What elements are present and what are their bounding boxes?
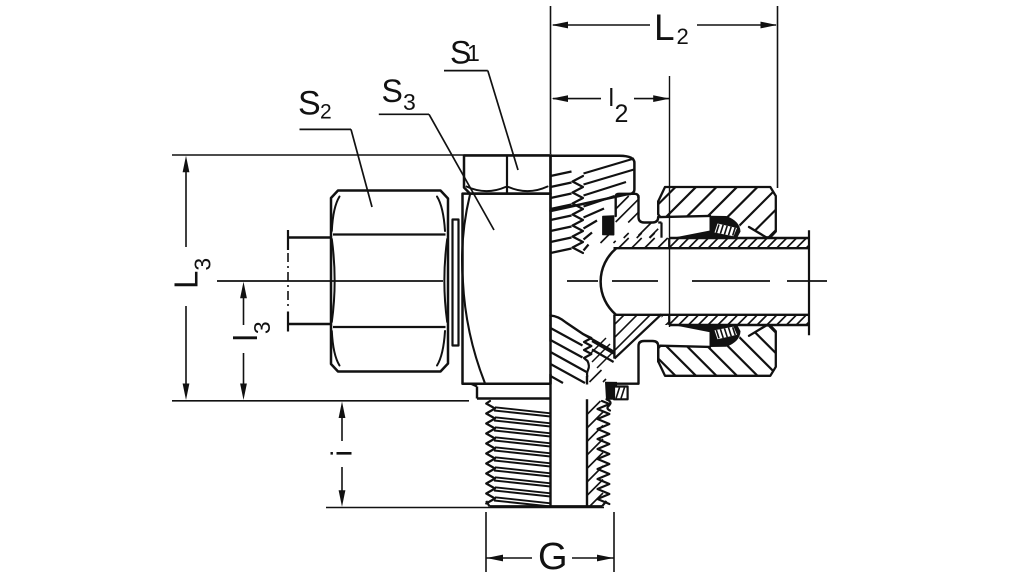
extension line L2 left axis top	[550, 6, 552, 154]
tube right end tick	[808, 230, 810, 335]
nut S2 chamfer arc mid-right	[444, 239, 447, 322]
swivel flange top hatch	[615, 195, 617, 197]
stud thread section zigzag	[598, 401, 610, 504]
bore channel bottom edge	[614, 314, 810, 316]
leader S1	[444, 70, 488, 72]
extension line i bottom	[326, 507, 604, 509]
locknut S1 chamfer arc right facet	[509, 187, 548, 192]
leader S2	[300, 128, 352, 130]
stud bottom edge	[490, 505, 603, 507]
tube end tick bottom	[287, 312, 289, 332]
stud bore wall section	[586, 376, 588, 385]
centerline horizontal axis	[217, 280, 443, 282]
stud thread external flank lines	[495, 407, 551, 413]
dimension L2 arrow left	[552, 22, 569, 29]
stud thread external zigzag	[486, 401, 495, 504]
nut S2 chamfer arc bottom-right	[437, 331, 445, 366]
tube right wall top hatch	[668, 237, 670, 239]
stud thread section hatch upper	[587, 369, 589, 371]
union nut right top outline	[658, 187, 776, 238]
dimension l3 arrow up	[240, 282, 247, 299]
tube end tick top	[287, 230, 289, 250]
tube right outline top	[669, 237, 809, 239]
tube break dash-dot	[287, 253, 289, 309]
nut S2 chamfer arc top-right	[437, 197, 445, 232]
body lower cross hatch	[592, 344, 610, 362]
svg-text:1: 1	[467, 40, 480, 66]
body S3 outline	[463, 194, 551, 384]
body lower outline curve	[551, 316, 614, 352]
svg-text:L: L	[654, 7, 675, 48]
svg-text:2: 2	[320, 100, 332, 123]
nut S2 chamfer arc top-left	[332, 197, 340, 232]
locknut S1 thread profile zigzag	[573, 176, 584, 253]
extension line l2 right	[669, 76, 671, 327]
dimension L3 arrow down	[183, 384, 190, 401]
flange bottom lip left edge	[613, 315, 615, 359]
dimension G line	[486, 557, 532, 559]
tube outline left	[288, 236, 331, 238]
extension line bottom reference	[172, 400, 469, 402]
body S3 hex curve	[462, 195, 485, 384]
cutting ring	[453, 220, 459, 346]
union nut S2 outline	[331, 191, 448, 372]
locknut S1 facet line	[506, 156, 508, 194]
dimension i arrow down	[339, 490, 346, 507]
svg-text:G: G	[538, 536, 568, 578]
section boundary vertical axis	[549, 156, 551, 342]
tube right outline bottom	[669, 324, 809, 326]
locknut S1 section outline	[551, 156, 635, 211]
seal ring bottom (mirror)	[673, 325, 740, 347]
dimension l2 arrow right	[653, 95, 670, 102]
dimension i arrow up	[339, 402, 346, 419]
extension line G left	[485, 512, 487, 572]
union nut right top inner face	[658, 201, 710, 217]
svg-text:2: 2	[677, 24, 689, 49]
dimension G arrow left	[487, 555, 504, 562]
dimension L2 arrow right	[761, 22, 778, 29]
stud seal washer section	[614, 387, 628, 400]
svg-text:S: S	[382, 73, 403, 109]
extension line top reference	[172, 154, 552, 156]
bore channel top edge	[614, 247, 810, 249]
flange bottom slot	[639, 341, 659, 384]
union nut right bottom hatch (mirror)	[656, 324, 778, 377]
body lower thread helix lines	[551, 328, 583, 346]
body dome bore arc	[601, 249, 616, 315]
bore step at tube joint top	[668, 238, 670, 248]
svg-text:3: 3	[403, 89, 416, 115]
locknut S1 chamfer arc left facet	[467, 187, 506, 192]
svg-text:S: S	[298, 84, 321, 122]
svg-text:2: 2	[615, 100, 629, 128]
dimension i line	[341, 407, 343, 441]
dimension L3 arrow up	[183, 156, 190, 173]
extension line L2 right	[777, 6, 779, 188]
stud seal ring section	[606, 382, 617, 399]
union nut right bottom outline (mirror)	[658, 325, 776, 376]
stud shoulder washer left	[472, 384, 478, 387]
nut S2 chamfer arc mid-left	[332, 239, 335, 322]
svg-text:i: i	[327, 450, 359, 456]
locknut S1 external outline	[464, 156, 551, 194]
swivel flange top lip	[616, 194, 639, 216]
extension line G right	[613, 512, 615, 572]
tube right wall bottom hatch	[668, 314, 670, 316]
dimension l2 arrow left	[552, 95, 569, 102]
nut S2 chamfer arc bottom-left	[332, 331, 340, 366]
dimension G arrow right	[597, 555, 614, 562]
nut S2 facet line upper	[333, 233, 446, 235]
stud thread section hatch	[586, 400, 588, 402]
dimension l3 line	[243, 288, 245, 325]
bore step at tube joint bottom	[668, 315, 670, 325]
body shoulder edge right	[616, 383, 639, 385]
body female thread zigzag	[583, 334, 591, 376]
dimension L2 line	[553, 24, 650, 26]
stud seal wavy runout	[607, 399, 611, 410]
dimension l2 line	[553, 98, 601, 100]
leader S3	[379, 113, 429, 115]
nut S2 facet line lower	[333, 326, 446, 328]
flange bottom cone face	[614, 314, 661, 358]
locknut S1 thread helix lines	[551, 172, 572, 177]
svg-text:l: l	[609, 84, 615, 112]
dimension L3 line	[185, 162, 187, 247]
seal ring locknut to flange	[603, 216, 614, 235]
dimension l3 arrow down	[240, 384, 247, 401]
